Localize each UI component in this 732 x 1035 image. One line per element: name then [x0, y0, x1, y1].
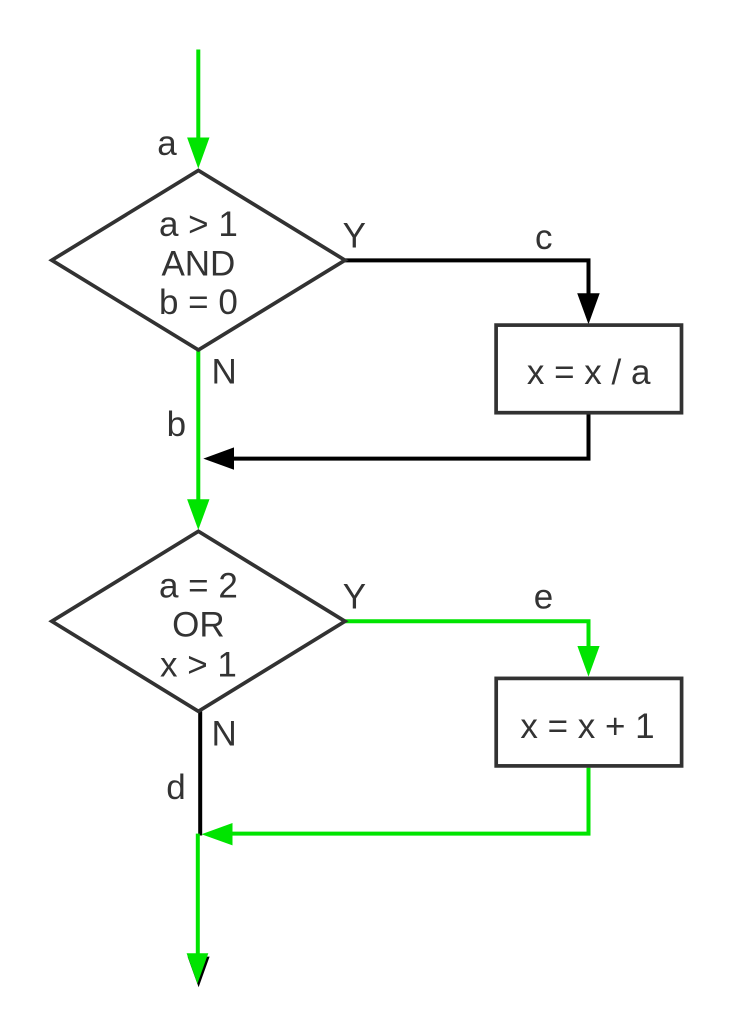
svg-text:a: a [157, 124, 177, 163]
process R2: x = x + 1 [496, 678, 681, 766]
arrowhead: exit arrow black layer (under green) [188, 957, 210, 988]
svg-text:AND: AND [161, 244, 235, 283]
svg-text:OR: OR [172, 606, 225, 645]
wire: edge b (D1 N to D2, green) [196, 350, 200, 503]
svg-text:e: e [534, 577, 553, 616]
decision D2: a = 2 OR x &gt; 1 [52, 531, 345, 711]
svg-text:a = 2: a = 2 [159, 567, 238, 606]
svg-text:b: b [167, 405, 186, 444]
arrowhead: R1 exit joins edge b (points left) [203, 447, 234, 469]
wire: edge e (D2 Y to R2, green) [345, 621, 589, 647]
decision D1: a &gt; 1 AND b = 0 [52, 170, 345, 350]
arrowhead: edge c into process R1 [577, 293, 600, 324]
wire: R1 exit elbow to junction on edge b (black) [234, 415, 589, 459]
svg-text:b = 0: b = 0 [159, 283, 238, 322]
process R1: x = x / a [496, 325, 681, 413]
svg-text:Y: Y [343, 216, 366, 255]
svg-text:Y: Y [343, 577, 366, 616]
svg-text:N: N [211, 715, 236, 754]
wire: edge a (entry, green) [196, 50, 200, 143]
svg-text:x = x / a: x = x / a [527, 353, 651, 392]
arrowhead: exit arrow green layer [187, 953, 209, 984]
svg-text:N: N [211, 353, 236, 392]
svg-text:a > 1: a > 1 [159, 205, 238, 244]
wire: edge d (D2 N down, black) [198, 711, 202, 835]
svg-text:x = x + 1: x = x + 1 [520, 707, 654, 746]
svg-text:x > 1: x > 1 [160, 646, 237, 685]
wire: R2 exit elbow to junction on edge d (green) [232, 768, 589, 834]
wire: exit edge (green, down to exit) [196, 834, 200, 955]
wire: edge c (D1 Y to R1, black) [345, 260, 589, 294]
svg-text:d: d [166, 768, 185, 807]
arrowhead: edge e into process R2 [577, 646, 599, 677]
arrowhead: edge a into decision D1 [187, 138, 209, 169]
arrowhead: edge b into decision D2 [187, 499, 209, 530]
arrowhead: R2 exit joins edge d (points left, green) [202, 823, 233, 845]
svg-text:c: c [535, 218, 553, 257]
